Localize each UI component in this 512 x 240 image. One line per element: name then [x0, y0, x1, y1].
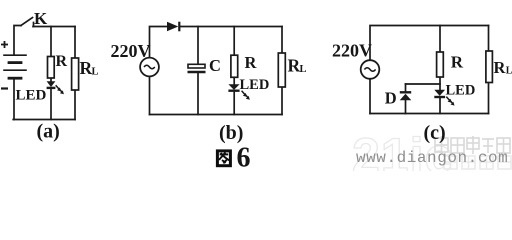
resistor R (b) [231, 55, 238, 77]
capacitor C top plate (b) [188, 64, 205, 68]
LED arrows (c) [446, 97, 454, 106]
wire bottom (a) [13, 119, 75, 121]
wire LED to bottom (b) [233, 91, 235, 114]
svg-text:220V: 220V [332, 41, 372, 61]
resistor RL (c) [486, 51, 493, 83]
wire LED to bottom (c) [439, 98, 441, 114]
svg-text:K: K [34, 9, 48, 28]
svg-text:(c): (c) [424, 122, 446, 144]
LED cathode bar (b) [228, 89, 239, 91]
watermark 21ic outline [352, 128, 453, 184]
battery plate short 2 [9, 77, 21, 80]
label + [1, 41, 8, 48]
resistor RL (b) [278, 53, 285, 87]
wire top after diode (b) [181, 26, 283, 28]
label - [1, 87, 8, 89]
watermark 中国电子网 glyph blocks [435, 136, 510, 154]
diode D1 cathode bar (b) [178, 22, 180, 32]
wire RL branch upper (c) [488, 26, 490, 52]
AC source tilde (c) [364, 68, 375, 72]
wire R branch upper (c) [439, 26, 441, 53]
svg-text:LED: LED [240, 77, 270, 93]
LED diode triangle (b) [228, 84, 239, 90]
resistor R (a) [48, 57, 55, 79]
wire RL branch upper (b) [281, 27, 283, 54]
wire bottom (b) [150, 114, 283, 116]
resistor R (c) [437, 52, 444, 77]
wire battery bottom (a) [13, 80, 15, 120]
capacitor C bottom plate (b) [188, 71, 206, 74]
wire bottom (c) [370, 113, 489, 115]
wire RL branch lower (b) [281, 87, 283, 115]
svg-text:LED: LED [446, 83, 476, 99]
LED arrows (a) [56, 85, 64, 94]
svg-text:C: C [209, 56, 221, 75]
resistor RL (a) [72, 58, 79, 90]
wire RL branch upper (a) [74, 27, 76, 59]
svg-text:R: R [56, 53, 68, 70]
wire R branch upper (b) [233, 27, 235, 56]
svg-text:(b): (b) [219, 122, 243, 144]
svg-text:www.diangon.com: www.diangon.com [356, 149, 508, 167]
wire R-LED branch lower (a) [50, 89, 52, 120]
svg-text:R: R [245, 53, 258, 72]
wire D branch lower (c) [405, 100, 407, 113]
diode D cathode bar (c) [400, 91, 411, 93]
AC source circle (c) [361, 60, 380, 79]
wire loop top (c) [406, 83, 441, 85]
wire RL branch lower (a) [74, 90, 76, 120]
battery plate long 2 [4, 69, 26, 71]
svg-text:R: R [494, 58, 507, 77]
diode D1 triangle (b) [167, 22, 178, 32]
wire R to LED (a) [50, 78, 52, 81]
watermark faint lower blocks [444, 156, 511, 169]
svg-text:LED: LED [16, 88, 47, 104]
wire D branch upper (c) [405, 84, 407, 91]
AC source circle (b) [140, 58, 159, 77]
wire RL branch lower (c) [488, 83, 490, 114]
svg-text:D: D [385, 89, 397, 108]
caption figure 6 glyph 图 [217, 151, 230, 166]
svg-text:L: L [300, 64, 307, 75]
LED cathode bar (a) [47, 87, 56, 89]
svg-text:6: 6 [237, 143, 251, 172]
wire left lower (b) [149, 76, 151, 114]
svg-text:R: R [451, 53, 464, 72]
LED diode triangle (c) [434, 90, 445, 96]
battery plate short 1 [9, 61, 21, 64]
wire R to junction (c) [439, 77, 441, 90]
diode D triangle (c) [400, 94, 412, 101]
svg-text:(a): (a) [37, 121, 60, 143]
LED diode triangle (a) [47, 81, 56, 87]
wire R branch upper (a) [50, 27, 52, 57]
wire left vertical (b) [150, 27, 168, 58]
wire top (a) [33, 26, 75, 28]
wire capacitor branch lower (b) [197, 73, 199, 115]
wire left vertical top (a) [14, 26, 21, 56]
switch K lever [21, 18, 33, 26]
svg-text:220V: 220V [111, 41, 151, 61]
wire R to LED (b) [233, 77, 235, 84]
battery plate long 1 [4, 54, 26, 56]
wire left lower (c) [369, 79, 371, 114]
wire left vertical upper (c) [370, 26, 489, 61]
LED cathode bar (c) [434, 96, 445, 98]
switch right contact tick [33, 23, 35, 27]
AC source tilde (b) [144, 65, 155, 68]
wire capacitor branch upper (b) [197, 27, 199, 65]
LED arrows (b) [242, 91, 250, 100]
svg-text:L: L [506, 66, 512, 77]
svg-text:L: L [92, 67, 99, 78]
